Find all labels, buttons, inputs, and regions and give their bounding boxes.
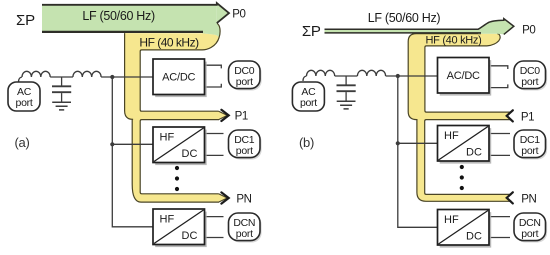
svg-text:port: port: [521, 228, 538, 240]
svg-text:port: port: [236, 228, 253, 240]
svg-text:port: port: [521, 76, 538, 88]
svg-text:DC: DC: [182, 230, 198, 242]
svg-text:PN: PN: [236, 193, 251, 205]
svg-text:ΣP: ΣP: [302, 23, 321, 40]
svg-text:PN: PN: [521, 193, 536, 205]
svg-text:DC: DC: [466, 146, 482, 158]
svg-text:port: port: [236, 76, 253, 88]
svg-text:(a): (a): [15, 135, 30, 150]
svg-text:HF: HF: [444, 214, 459, 226]
svg-text:P1: P1: [521, 111, 534, 123]
svg-text:HF (40 kHz): HF (40 kHz): [139, 35, 199, 49]
svg-text:HF (40 kHz): HF (40 kHz): [426, 34, 482, 46]
svg-text:port: port: [236, 145, 253, 157]
svg-text:ΣP: ΣP: [16, 12, 35, 29]
svg-text:DC: DC: [182, 148, 198, 160]
svg-text:AC/DC: AC/DC: [162, 72, 195, 84]
svg-text:port: port: [521, 145, 538, 157]
svg-text:P1: P1: [235, 110, 248, 122]
svg-text:AC/DC: AC/DC: [447, 70, 480, 82]
svg-text:(b): (b): [299, 135, 314, 150]
svg-text:P0: P0: [232, 8, 245, 20]
svg-text:HF: HF: [160, 213, 175, 225]
svg-text:LF (50/60 Hz): LF (50/60 Hz): [368, 11, 441, 25]
svg-text:LF (50/60 Hz): LF (50/60 Hz): [82, 9, 155, 23]
svg-text:HF: HF: [444, 130, 459, 142]
svg-text:P0: P0: [522, 24, 535, 36]
svg-text:DC: DC: [466, 230, 482, 242]
svg-text:port: port: [16, 97, 33, 109]
svg-text:HF: HF: [160, 131, 175, 143]
svg-text:port: port: [300, 97, 317, 109]
